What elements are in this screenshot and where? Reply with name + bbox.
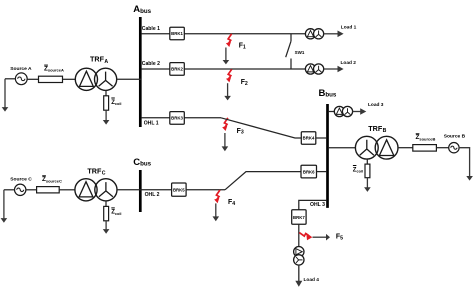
- transformer TRF_C: [75, 179, 117, 201]
- svg-text:Cable 1: Cable 1: [142, 26, 160, 32]
- svg-text:F5: F5: [336, 233, 343, 241]
- fault F5 lightning: [299, 233, 312, 241]
- svg-text:SW1: SW1: [295, 50, 305, 55]
- svg-text:BRK4: BRK4: [303, 136, 315, 141]
- svg-text:coil: coil: [115, 212, 122, 216]
- wire OHL 1: [141, 117, 221, 119]
- wire Source A to ground: [5, 79, 15, 108]
- impedance Z_coil A: [104, 96, 109, 110]
- svg-text:Source A: Source A: [10, 66, 32, 72]
- fault F4 lightning: [214, 190, 220, 203]
- fault F5 arrow: [313, 234, 331, 241]
- svg-text:sourceA: sourceA: [48, 68, 64, 73]
- wire BRK6 to B_bus: [317, 171, 327, 173]
- breaker BRK7: [292, 210, 306, 224]
- ground arrow Z_coil C: [103, 221, 110, 234]
- bus C_bus: [139, 170, 142, 212]
- source Source C: [15, 184, 26, 195]
- fault F1 ground arrow: [223, 48, 230, 65]
- svg-text:BRK5: BRK5: [173, 188, 185, 193]
- arrow Load 1: [324, 31, 344, 38]
- svg-text:F1: F1: [239, 43, 246, 51]
- breaker BRK1: [170, 27, 185, 40]
- fault F2 lightning: [226, 69, 232, 82]
- svg-text:Source B: Source B: [444, 134, 466, 140]
- ground arrow Z_coil B: [364, 178, 371, 192]
- breaker BRK3: [170, 112, 185, 125]
- label Z_coil C: [111, 208, 121, 216]
- wire Z_sourceC to TRF_C: [59, 189, 75, 191]
- transformer TRF_A: [75, 68, 116, 90]
- fault F4 ground arrow: [213, 203, 220, 221]
- wire B_bus to TRF_B: [329, 147, 356, 149]
- ground arrow Source B: [466, 176, 473, 181]
- transformer TRF_B: [355, 136, 398, 159]
- impedance Z_sourceC: [37, 187, 60, 193]
- wire BRK5 to fault F4: [186, 189, 225, 191]
- svg-text:Load 4: Load 4: [304, 277, 320, 283]
- source Source B: [449, 143, 459, 153]
- svg-text:sourceB: sourceB: [419, 136, 435, 141]
- svg-text:BRK3: BRK3: [171, 116, 183, 121]
- label Z_coil B: [353, 166, 363, 174]
- svg-text:F2: F2: [241, 79, 248, 87]
- breaker BRK6: [301, 165, 317, 178]
- wire BRK7 to Load 4 transformer: [298, 224, 300, 246]
- bus A_bus: [139, 17, 142, 127]
- transformer Load4: [294, 247, 304, 266]
- wire TRF_C to C_bus: [117, 189, 141, 191]
- svg-text:Cable 2: Cable 2: [142, 61, 160, 67]
- wire Z_sourceA to TRF_A: [63, 78, 76, 80]
- bus B_bus: [326, 104, 329, 208]
- svg-text:Load 2: Load 2: [341, 60, 357, 66]
- wire Cable 2: [141, 68, 305, 70]
- breaker BRK5: [172, 183, 187, 196]
- wire TRF_A to Z_coil: [105, 90, 107, 95]
- svg-text:Source C: Source C: [10, 176, 32, 182]
- transformer Load3: [334, 106, 352, 116]
- svg-text:BRK2: BRK2: [171, 67, 183, 72]
- svg-text:sourceC: sourceC: [46, 178, 62, 183]
- svg-text:OHL 3: OHL 3: [310, 202, 325, 208]
- wire BRK4 to B_bus: [316, 137, 327, 139]
- label Z_sourceC: [42, 176, 62, 184]
- arrow Load 3: [353, 108, 367, 115]
- ground arrow Source A: [2, 107, 9, 112]
- svg-text:coil: coil: [357, 170, 364, 174]
- svg-text:coil: coil: [115, 102, 122, 106]
- svg-text:F3: F3: [237, 128, 244, 136]
- breaker BRK4: [301, 132, 316, 145]
- svg-text:BRK7: BRK7: [293, 215, 305, 220]
- arrow Load 4: [295, 265, 302, 287]
- label Z_coil A: [111, 98, 121, 106]
- wire OHL 3 from B_bus: [299, 200, 327, 209]
- wire TRF_B to Z_sourceB: [398, 147, 413, 149]
- ground arrow Z_coil A: [103, 110, 110, 124]
- svg-text:Load 1: Load 1: [341, 24, 357, 30]
- wire Source A to Z_sourceA: [27, 78, 38, 80]
- wire Source B to ground: [459, 148, 470, 177]
- impedance Z_sourceA: [39, 76, 63, 82]
- label Z_sourceA: [44, 65, 64, 73]
- fault F1 lightning: [226, 34, 232, 47]
- source Source A: [15, 73, 27, 85]
- wire TRF_A to A_bus: [117, 78, 142, 80]
- wire Z_sourceB to Source B: [436, 147, 449, 149]
- fault F2 ground arrow: [224, 83, 231, 100]
- wire TRF_C to Z_coil C: [105, 201, 107, 207]
- wire Source C to ground: [4, 190, 15, 219]
- wire OHL2 diagonal to BRK6: [225, 172, 301, 190]
- breaker BRK2: [170, 63, 185, 76]
- label Z_sourceB: [416, 134, 436, 142]
- transformer Load1: [305, 29, 323, 39]
- ground arrow Source C: [1, 218, 8, 223]
- wire Source C to Z_sourceC: [26, 189, 37, 191]
- transformer Load2: [305, 64, 323, 74]
- arrow Load 2: [324, 66, 344, 73]
- switch SW1: [286, 34, 291, 69]
- svg-text:OHL 1: OHL 1: [144, 121, 159, 127]
- impedance Z_coil B: [365, 164, 370, 178]
- wire OHL1 diagonal to BRK4: [221, 118, 301, 138]
- impedance Z_sourceB: [413, 145, 437, 152]
- impedance Z_coil C: [104, 206, 109, 220]
- svg-text:Load 3: Load 3: [368, 102, 384, 108]
- svg-text:F4: F4: [228, 199, 235, 207]
- wire OHL 2 from C_bus: [141, 189, 171, 191]
- svg-text:BRK1: BRK1: [171, 31, 183, 36]
- fault F3 ground arrow: [222, 133, 229, 151]
- wire Load 3: [329, 111, 335, 113]
- wire Cable 1: [141, 33, 305, 35]
- svg-text:OHL 2: OHL 2: [145, 192, 160, 198]
- svg-text:BRK6: BRK6: [303, 169, 315, 174]
- fault F3 lightning: [222, 118, 228, 131]
- wire TRF_B to Z_coil B: [366, 159, 368, 164]
